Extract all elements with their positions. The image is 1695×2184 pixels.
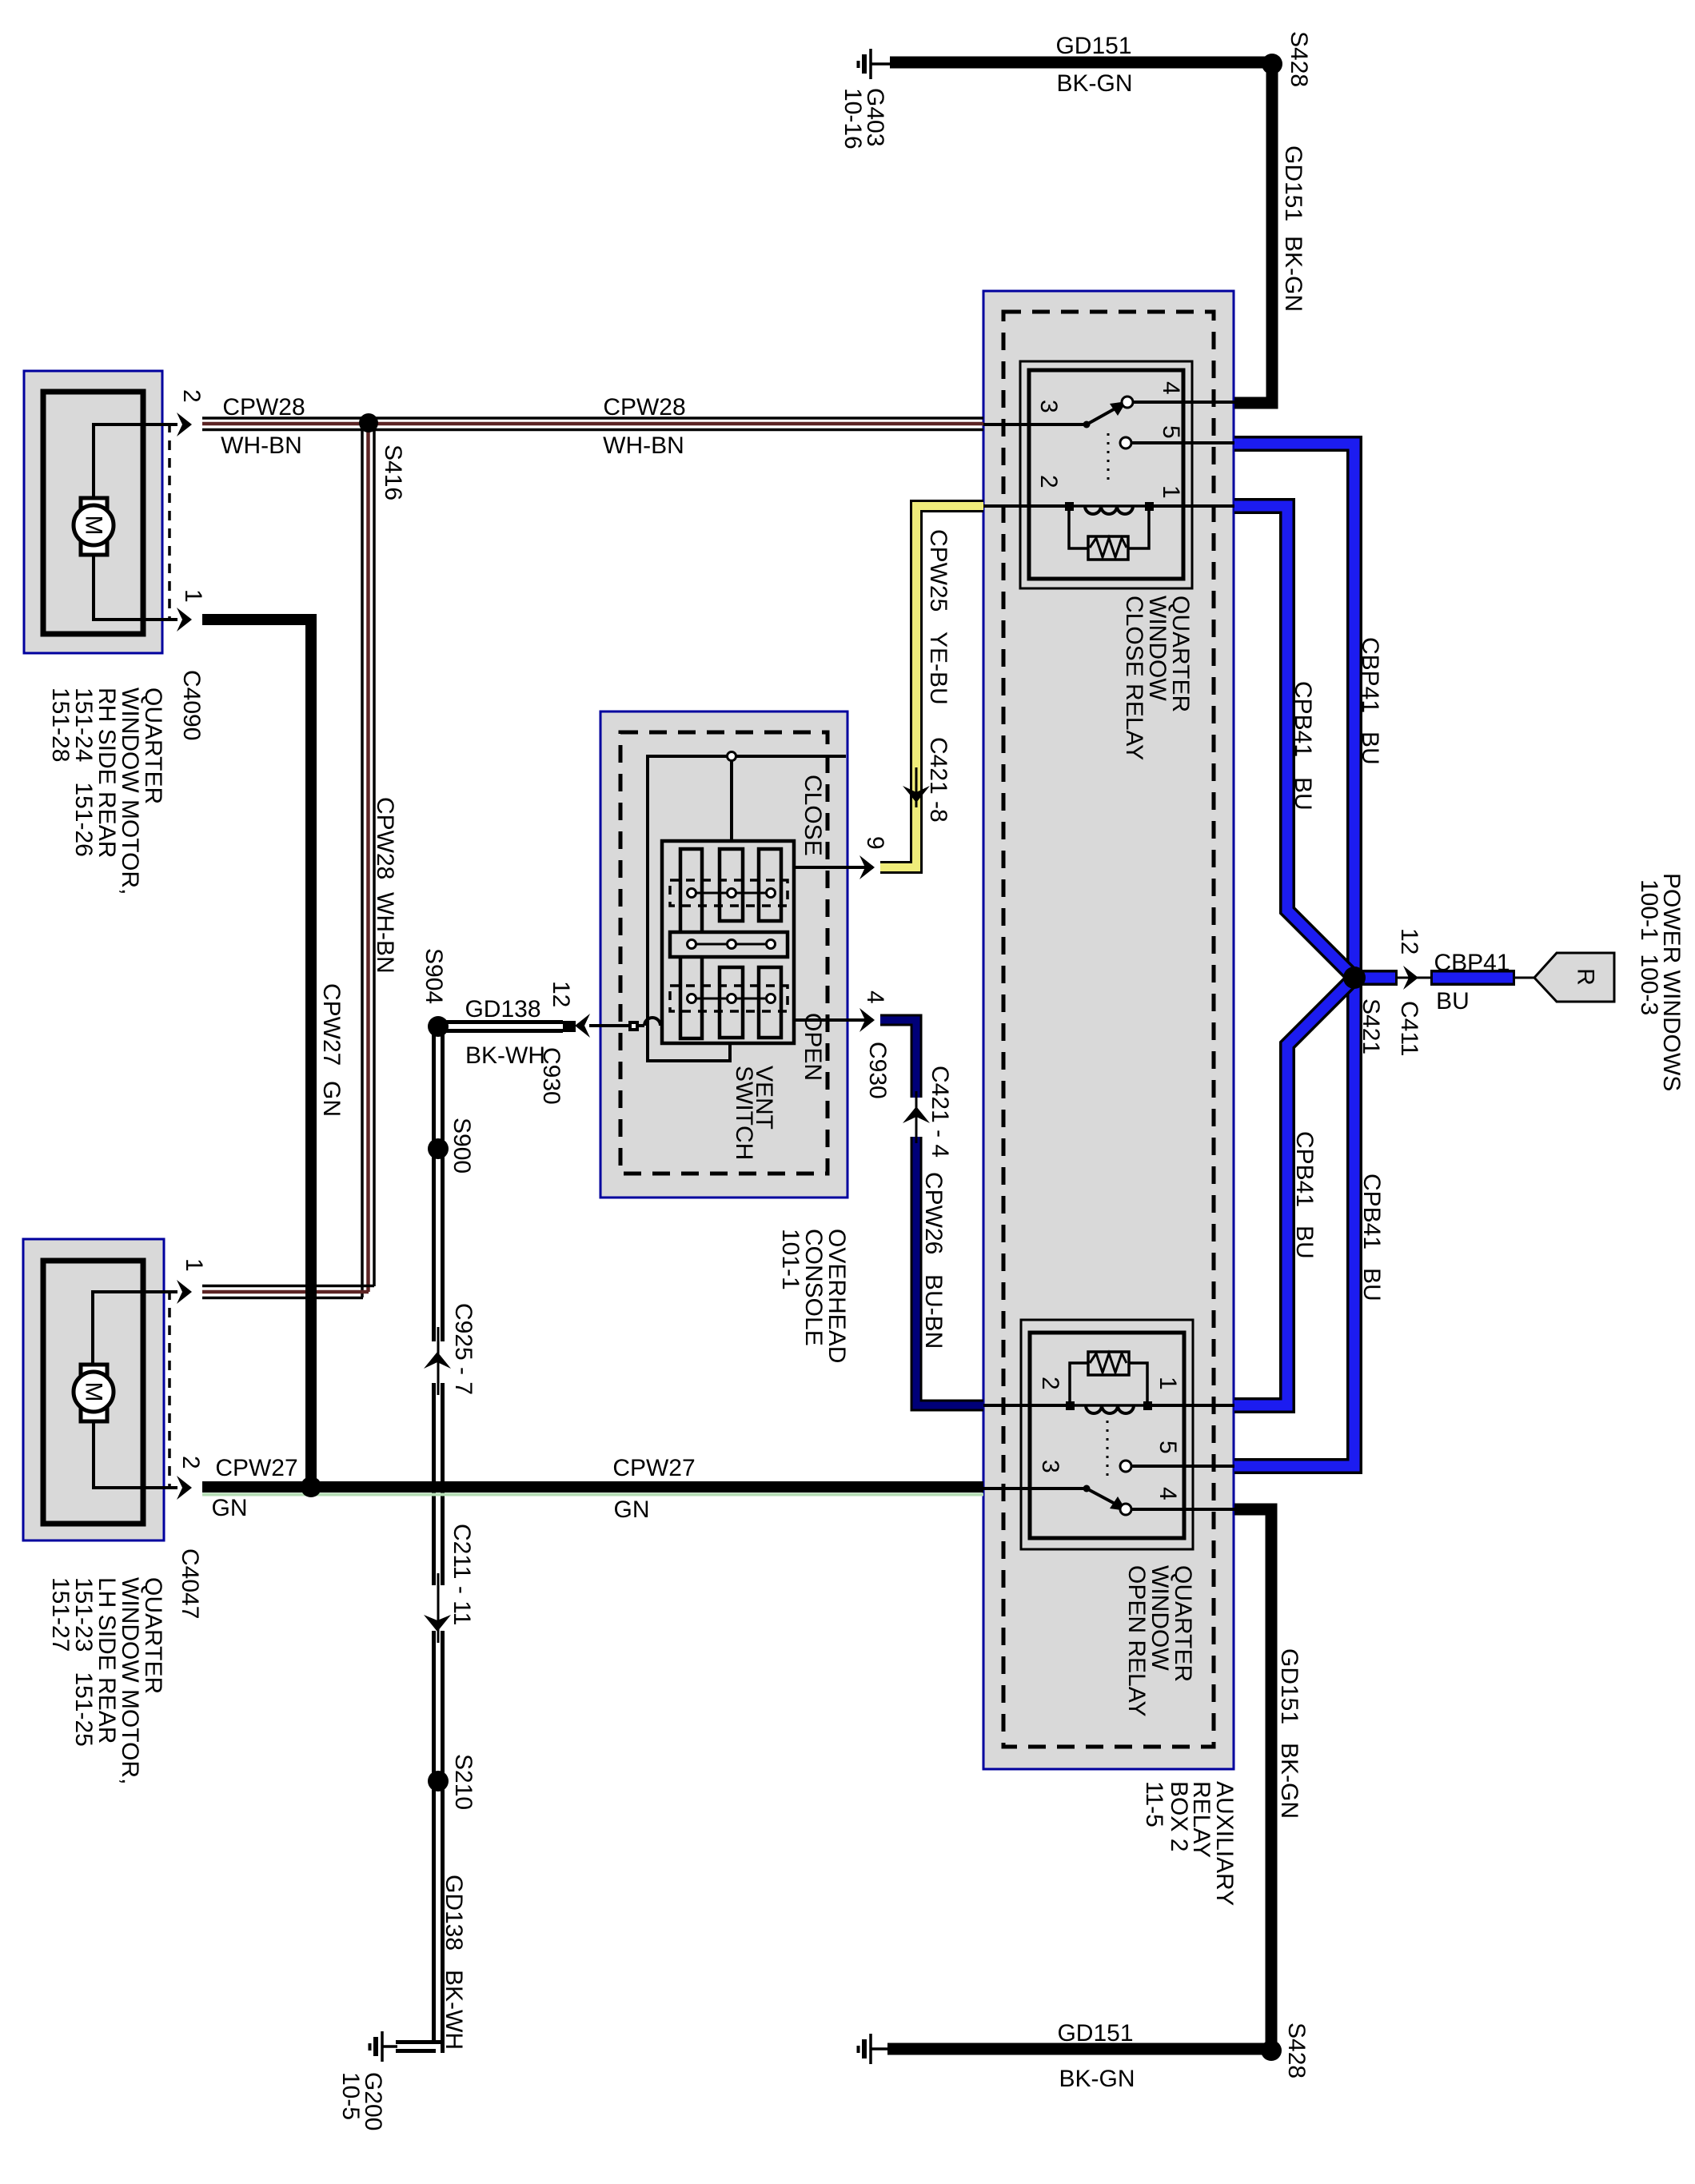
wire open relay pin2 coil feed: [983, 1404, 1068, 1407]
overhead console box: [600, 711, 847, 1198]
svg-text:S416: S416: [380, 444, 406, 500]
svg-text:WH-BN: WH-BN: [603, 432, 684, 459]
connector C4090 dashed boundary: [168, 423, 171, 621]
motor M1 symbol: [74, 498, 114, 555]
pin 2 arrow C4047: [177, 1476, 192, 1500]
wire CPB41 BU inner top close relay pin1 to S421: [1234, 506, 1354, 978]
close relay U-close internals: [1065, 397, 1154, 560]
svg-text:CPW25: CPW25: [925, 529, 951, 612]
wire GD151 BK-GN bottom horizontal to ground G403: [887, 2043, 1271, 2055]
motor M2 symbol: [74, 1365, 114, 1421]
svg-text:151-27: 151-27: [47, 1577, 74, 1652]
svg-text:5: 5: [1155, 1441, 1181, 1454]
contact pin5: [1120, 437, 1131, 448]
wire CPW25 YE-BU vent switch pin9 to close relay pin2: [880, 506, 983, 867]
svg-text:C411: C411: [1396, 1001, 1422, 1057]
svg-text:OPEN: OPEN: [800, 1013, 826, 1081]
node S416: [359, 413, 378, 432]
node S210: [428, 1771, 449, 1791]
switch pivot: [1083, 1485, 1091, 1493]
svg-text:2: 2: [177, 1456, 204, 1469]
svg-text:CBP41: CBP41: [1357, 637, 1383, 713]
wire close relay pin1: [1151, 504, 1234, 508]
svg-text:CPW28: CPW28: [603, 394, 685, 420]
connector C411 arrow: [1403, 966, 1418, 990]
svg-text:C421 - 4: C421 - 4: [927, 1066, 953, 1158]
component boxes: [23, 291, 1234, 1769]
wire GD151 BK-GN bottom: open relay pin4 down to S428: [1234, 1509, 1271, 2045]
ground G403 bottom: [859, 2034, 890, 2064]
vent pin12 contact square: [628, 1021, 639, 1031]
horizontal wire labels: [212, 33, 1510, 2092]
vent switch assembly: [628, 752, 794, 1044]
svg-text:M: M: [81, 516, 107, 536]
top plungers: [720, 849, 743, 921]
svg-text:CLOSE: CLOSE: [800, 775, 826, 856]
switch pivot: [1083, 421, 1091, 428]
svg-text:4: 4: [1155, 1487, 1181, 1501]
wire open relay pin4: [1131, 1508, 1234, 1511]
svg-text:2: 2: [1035, 475, 1062, 488]
contact pin5: [1120, 1461, 1131, 1472]
svg-text:CPW28: CPW28: [372, 797, 398, 879]
coil: [1070, 1404, 1147, 1407]
svg-text:WH-BN: WH-BN: [221, 432, 302, 459]
svg-text:10-16: 10-16: [840, 88, 866, 149]
connector C4047 dashed boundary: [168, 1290, 171, 1489]
wire GD138 BK-WH double vertical S904 down to G200: [396, 1026, 445, 2053]
svg-text:S428: S428: [1283, 2023, 1310, 2078]
svg-text:4: 4: [862, 990, 888, 1004]
svg-text:151-28: 151-28: [47, 687, 74, 762]
svg-text:GD151: GD151: [1055, 33, 1131, 59]
wire close relay pin3: [983, 423, 1087, 426]
svg-text:BU: BU: [1290, 777, 1316, 811]
svg-text:C925 - 7: C925 - 7: [450, 1303, 477, 1395]
svg-text:C4047: C4047: [177, 1548, 203, 1619]
node S428 bottom: [1261, 2040, 1282, 2061]
svg-text:BU-BN: BU-BN: [920, 1274, 947, 1349]
svg-text:S421: S421: [1358, 998, 1384, 1054]
node S900: [428, 1138, 449, 1159]
wire CPW27 GN motor1 pin1 down to S415: [202, 620, 311, 1481]
wire open relay pin1: [1150, 1404, 1234, 1407]
svg-text:GD138: GD138: [441, 1875, 467, 1951]
wire CPW28 WH-BN horizontal run motor1 pin2 to close relay pin3: [202, 418, 983, 430]
ground G200: [370, 2031, 398, 2062]
pin 4 arrow C930: [859, 1008, 875, 1032]
svg-text:S428: S428: [1286, 31, 1312, 87]
svg-text:CPB41: CPB41: [1358, 1174, 1385, 1249]
pin arrows: [177, 412, 1418, 1632]
svg-text:OPEN RELAY: OPEN RELAY: [1123, 1565, 1150, 1717]
wire close relay pin4: [1133, 401, 1234, 404]
svg-text:101-1: 101-1: [777, 1229, 804, 1290]
svg-text:BK-WH: BK-WH: [465, 1042, 545, 1069]
wire GD151 BK-GN top horizontal to ground G403: [890, 57, 1272, 69]
connector C421-4 arrow: [903, 1106, 930, 1123]
connector C925-7 arrow: [424, 1352, 451, 1369]
svg-text:C930: C930: [864, 1042, 891, 1099]
node S428 top: [1262, 54, 1282, 74]
svg-text:GD151: GD151: [1057, 2020, 1133, 2047]
svg-text:S900: S900: [449, 1118, 475, 1174]
bottom plungers: [720, 967, 743, 1038]
svg-text:CPW27: CPW27: [612, 1455, 695, 1481]
wire CPW28 WH-BN vertical branch S416 to motor2 pin1: [202, 416, 374, 1298]
pin 12 arrow C930: [575, 1014, 590, 1038]
svg-text:12: 12: [1396, 928, 1422, 955]
switch arm: [1087, 405, 1121, 424]
wire motor2 internal: [93, 1292, 177, 1372]
node contact on vent common wire: [728, 752, 736, 761]
svg-text:CBP41: CBP41: [1434, 950, 1510, 976]
svg-text:GD151: GD151: [1280, 145, 1306, 221]
ground G403 top: [859, 49, 891, 79]
open relay box: [1021, 1320, 1193, 1549]
svg-text:M: M: [81, 1382, 107, 1402]
svg-text:S904: S904: [421, 948, 447, 1004]
svg-text:CPW27: CPW27: [318, 983, 345, 1066]
pin 9 arrow C930: [859, 855, 875, 879]
svg-text:C930: C930: [538, 1047, 564, 1105]
switch arm: [1087, 1489, 1121, 1507]
svg-text:BOX 2: BOX 2: [1166, 1781, 1192, 1851]
svg-text:BU: BU: [1291, 1226, 1318, 1259]
svg-text:BU: BU: [1436, 988, 1470, 1014]
svg-text:3: 3: [1035, 400, 1062, 413]
wire CBP41 BU outer loop close relay pin5 to open relay pin5: [1234, 444, 1354, 1466]
svg-text:GN: GN: [318, 1081, 345, 1117]
svg-text:BU: BU: [1357, 731, 1383, 765]
svg-text:BK-GN: BK-GN: [1056, 70, 1132, 97]
power windows flag R: [1534, 953, 1614, 1002]
svg-text:100-1 100-3: 100-1 100-3: [1636, 879, 1662, 1015]
svg-text:2: 2: [178, 389, 205, 403]
pin 1 arrow C4090: [177, 608, 192, 632]
svg-text:12: 12: [548, 981, 574, 1007]
svg-text:GD151: GD151: [1276, 1648, 1302, 1724]
common bar: [670, 932, 788, 957]
node S904: [428, 1016, 449, 1037]
quarter window motor RH box: [24, 371, 162, 653]
svg-text:BK-GN: BK-GN: [1059, 2066, 1135, 2092]
quarter window motor LH box: [23, 1239, 164, 1540]
node S421: [1343, 966, 1366, 989]
svg-text:9: 9: [862, 836, 888, 850]
svg-text:1: 1: [1155, 1377, 1181, 1390]
wire vent switch pin12 with hop: [589, 1018, 663, 1026]
svg-text:2: 2: [1037, 1377, 1063, 1390]
wire CPW26 BU-BN vent switch pin4 to open relay pin2: [880, 1020, 983, 1405]
connector C421-8 arrow: [903, 786, 930, 803]
svg-text:R: R: [1573, 968, 1599, 986]
left plunger: [680, 849, 702, 1038]
svg-text:BK-GN: BK-GN: [1276, 1743, 1302, 1819]
wire vent switch common loop: [648, 756, 846, 1061]
wire CPB41 BU inner bottom open relay pin1 to S421: [1234, 978, 1354, 1405]
svg-text:CPW26: CPW26: [920, 1172, 947, 1254]
svg-text:BK-WH: BK-WH: [441, 1970, 467, 2050]
open relay U-open internals: [1066, 1352, 1152, 1515]
wire close relay pin2 coil feed: [983, 504, 1067, 508]
wire GD138 BK-WH double horizontal S904 to vent switch pin12: [438, 1022, 576, 1031]
pin 1 arrow C4047: [177, 1280, 192, 1304]
svg-text:CPW27: CPW27: [215, 1455, 297, 1481]
svg-text:1: 1: [1158, 485, 1184, 499]
svg-text:BU: BU: [1358, 1268, 1385, 1301]
coil: [1069, 504, 1149, 508]
wire open relay pin5: [1131, 1465, 1234, 1468]
svg-text:YE-BU: YE-BU: [925, 632, 951, 705]
svg-text:C211 - 11: C211 - 11: [449, 1524, 475, 1625]
svg-text:CPW28: CPW28: [222, 394, 305, 420]
svg-text:BK-GN: BK-GN: [1280, 236, 1306, 312]
connector C211-11 arrow: [424, 1615, 451, 1632]
thin pin wires: [93, 402, 1234, 1509]
svg-text:4: 4: [1158, 381, 1184, 395]
wire motor1 internal: [94, 424, 177, 505]
svg-text:GN: GN: [212, 1495, 248, 1521]
contact pin4: [1120, 1504, 1131, 1515]
wire vent switch pin4: [794, 1018, 873, 1022]
svg-text:S210: S210: [450, 1754, 477, 1810]
svg-text:SWITCH: SWITCH: [731, 1066, 757, 1160]
wire CBP41 BU stub S421 to connector C411 and R: [1398, 977, 1534, 979]
svg-text:C421 -8: C421 -8: [925, 737, 951, 823]
svg-text:10-5: 10-5: [337, 2072, 364, 2120]
pin 2 arrow C4090: [177, 412, 192, 436]
close relay box: [1020, 361, 1192, 588]
resistor branch: [1070, 1363, 1147, 1403]
wire open relay pin3: [983, 1487, 1087, 1490]
svg-text:GD138: GD138: [465, 996, 540, 1022]
svg-text:3: 3: [1037, 1460, 1063, 1473]
contact pin4: [1122, 397, 1133, 408]
close contact dashed bracket: [670, 880, 788, 906]
svg-text:CLOSE RELAY: CLOSE RELAY: [1121, 596, 1147, 760]
svg-text:CPB41: CPB41: [1291, 1131, 1318, 1207]
dotted link: [1107, 1412, 1109, 1482]
svg-text:11-5: 11-5: [1141, 1781, 1167, 1827]
dotted link: [1107, 433, 1110, 486]
open contact dashed bracket: [670, 986, 788, 1011]
svg-text:1: 1: [181, 1258, 207, 1272]
wire CPW27 GN horizontal S415 to open relay pin3: [202, 1493, 983, 1497]
wire close relay pin5: [1131, 441, 1234, 444]
auxiliary relay box 2: [983, 291, 1234, 1769]
svg-text:GN: GN: [614, 1497, 650, 1523]
svg-text:WH-BN: WH-BN: [372, 892, 398, 974]
svg-text:C4090: C4090: [178, 670, 205, 740]
svg-text:5: 5: [1158, 425, 1184, 439]
svg-text:1: 1: [180, 589, 206, 603]
node S415: [301, 1477, 321, 1497]
svg-text:CPB41: CPB41: [1290, 681, 1316, 757]
wire vent switch pin9: [794, 866, 873, 869]
resistor branch: [1069, 511, 1149, 548]
wire GD151 BK-GN top: S428 down to close relay pin4: [1234, 70, 1272, 403]
